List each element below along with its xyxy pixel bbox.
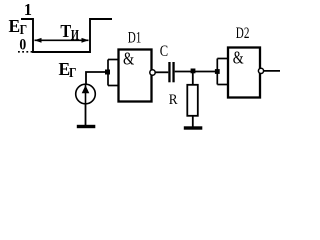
junction node at D1 input — [105, 70, 110, 75]
svg-text:Г: Г — [20, 21, 27, 37]
wire node to D2 input — [193, 71, 217, 73]
D1 input stub pin 1 — [108, 59, 118, 61]
wire D1 output to capacitor — [155, 71, 168, 73]
wire resistor to ground — [192, 116, 194, 127]
svg-text:E: E — [9, 16, 21, 36]
D2 input stub pin 1 — [217, 58, 227, 60]
wire generator to D1 input — [86, 72, 108, 84]
label Eг (generator) — [59, 59, 77, 81]
gate D1 body — [119, 50, 152, 102]
svg-text:1: 1 — [24, 0, 32, 19]
generator arrow line — [85, 84, 87, 104]
capacitor C left plate — [168, 62, 170, 82]
resistor R body — [187, 85, 198, 116]
right arrowhead — [82, 38, 89, 43]
svg-text:D2: D2 — [236, 24, 250, 41]
gate D2 body — [228, 48, 260, 98]
junction node at D2 input — [215, 69, 220, 74]
left arrowhead — [34, 38, 41, 43]
junction node C-R-D2 — [191, 69, 196, 74]
svg-text:D1: D1 — [128, 29, 142, 46]
svg-text:&: & — [123, 48, 134, 69]
svg-text:Г: Г — [69, 64, 76, 80]
D2 input stub pin 2 — [217, 84, 227, 86]
generator arrowhead — [82, 85, 90, 93]
wire D2 output — [264, 70, 280, 72]
svg-text:&: & — [233, 49, 244, 68]
ground (generator) — [77, 125, 96, 128]
label Tи — [60, 21, 79, 43]
svg-text:И: И — [71, 27, 79, 43]
pulse waveform trace — [21, 19, 112, 52]
svg-text:C: C — [160, 44, 168, 60]
wire node to resistor — [192, 72, 194, 85]
D1 input stub pin 2 — [108, 85, 118, 87]
Tи dimension arrow line — [35, 39, 89, 41]
capacitor C right plate — [172, 62, 174, 82]
D2 inversion bubble — [258, 68, 263, 73]
svg-text:R: R — [169, 91, 178, 108]
D1 input tie wire — [107, 60, 109, 86]
wire generator to ground — [85, 104, 87, 126]
ground (resistor) — [184, 126, 203, 129]
wire capacitor to node — [175, 71, 193, 73]
dotted zero level line — [18, 51, 33, 53]
svg-text:T: T — [60, 21, 71, 41]
label Eг (waveform axis) — [9, 16, 28, 38]
D2 input tie wire — [216, 59, 218, 85]
generator G1 circle — [76, 84, 96, 104]
D1 inversion bubble — [150, 70, 155, 75]
